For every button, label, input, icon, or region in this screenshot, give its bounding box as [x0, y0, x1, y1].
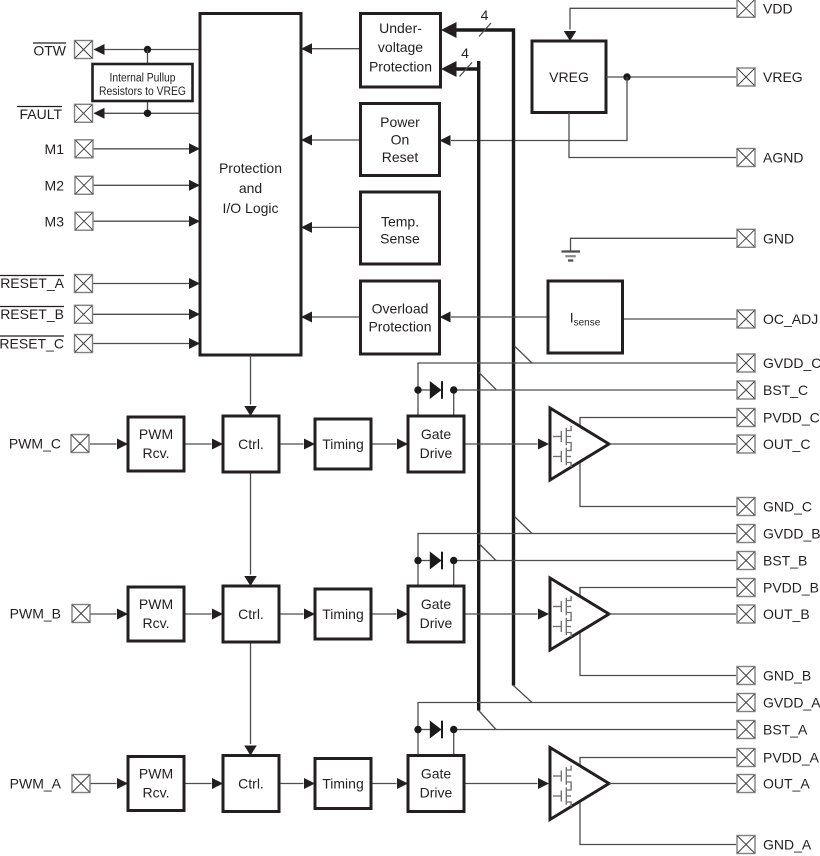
junction FAULT pullup node [144, 110, 151, 117]
wire RESET_A to Protection box [93, 283, 189, 285]
svg-text:Drive: Drive [420, 615, 453, 631]
arrow M2 into Protection box [189, 180, 200, 191]
pin FAULT [75, 104, 93, 122]
wire Gate Drive to power stage B [464, 613, 538, 615]
svg-text:Protection: Protection [219, 160, 282, 176]
label pin RESET_C [0, 336, 64, 352]
pin GND_A [737, 836, 755, 854]
pin PWM_C [71, 435, 89, 453]
junction OTW pullup node [144, 46, 151, 53]
arrow Overload into Protection [301, 312, 312, 323]
svg-text:AGND: AGND [763, 150, 803, 166]
wire Ctrl to Timing B [279, 613, 304, 615]
arrow into Ctrl C [212, 439, 223, 450]
svg-text:Under-: Under- [379, 20, 422, 36]
block Ctrl. C [223, 416, 279, 472]
wire OUT_A net [609, 783, 736, 785]
arrow POR into Protection [301, 135, 312, 146]
bus entry GVDD_C [515, 346, 533, 363]
wire BST_C net [454, 390, 736, 416]
arrow bus GVDD into UVP [441, 22, 457, 38]
wire GVDD_B net [418, 534, 736, 587]
arrow into VREG top [564, 31, 577, 41]
arrow into PWM Rcv B [117, 609, 128, 620]
pin PVDD_B [737, 579, 755, 597]
wire UVP to Protection [312, 48, 361, 50]
svg-text:Reset: Reset [382, 149, 419, 165]
svg-text:Power: Power [380, 114, 420, 130]
arrow RESET_C into Protection box [189, 338, 200, 349]
block Protection and I/O Logic [200, 14, 301, 356]
wire pullup vertical [147, 50, 149, 114]
pin GVDD_C [737, 354, 755, 372]
arrow into PWM Rcv A [117, 778, 128, 789]
svg-text:PVDD_B: PVDD_B [763, 580, 819, 596]
svg-text:Rcv.: Rcv. [143, 785, 170, 801]
wire Overload to Protection [312, 316, 361, 318]
pin OTW [75, 41, 93, 59]
svg-text:Temp.: Temp. [381, 214, 419, 230]
wire TempSense to Protection [312, 226, 361, 228]
wire Ctrl C to Ctrl B [250, 472, 252, 575]
pin OUT_A [737, 775, 755, 793]
arrow into Power On Reset right [440, 135, 451, 146]
ground symbol [562, 252, 581, 261]
svg-text:Internal Pullup: Internal Pullup [110, 73, 176, 85]
block PWM Rcv. A [128, 757, 184, 811]
svg-text:BST_A: BST_A [763, 722, 808, 738]
svg-text:GND_B: GND_B [763, 668, 811, 684]
mosfet low-side A [553, 786, 571, 807]
pin M2 [75, 176, 93, 194]
arrow into Gate Drive B [397, 609, 408, 620]
arrow into power stage B [538, 609, 549, 620]
svg-text:BST_B: BST_B [763, 553, 807, 569]
wire Ctrl to Timing A [279, 783, 304, 785]
svg-text:GND_A: GND_A [763, 837, 812, 853]
wire PWM Rcv to Ctrl C [184, 443, 212, 445]
block Gate Drive C [408, 416, 464, 472]
arrow OTW into pin [94, 44, 105, 55]
svg-text:GND: GND [763, 230, 794, 246]
svg-text:M2: M2 [45, 178, 65, 194]
pin VREG [737, 68, 755, 86]
wire BST_A net [454, 730, 736, 756]
label pin RESET_A [0, 275, 65, 291]
pin BST_C [737, 381, 755, 399]
block Power On Reset [361, 104, 440, 176]
arrow into Timing B [304, 609, 315, 620]
svg-text:Ctrl.: Ctrl. [238, 776, 264, 792]
wire M2 to Protection box [93, 184, 189, 186]
arrow M3 into Protection box [189, 216, 200, 227]
junction GVDD diode anode C [414, 386, 421, 393]
block Temp. Sense [361, 192, 440, 264]
svg-text:and: and [239, 180, 262, 196]
svg-text:PVDD_A: PVDD_A [763, 750, 820, 766]
wire Timing to Gate Drive A [371, 783, 397, 785]
power stage triangle B [550, 578, 609, 650]
svg-text:On: On [391, 132, 410, 148]
wire OC_ADJ to Isense [623, 318, 737, 320]
block PWM Rcv. C [128, 417, 184, 471]
arrow into PWM Rcv C [117, 439, 128, 450]
block Ctrl. B [223, 586, 279, 642]
wire PVDD_B net [580, 588, 736, 676]
junction BST diode cathode B [450, 557, 457, 564]
svg-text:VREG: VREG [549, 69, 589, 85]
bus entry GVDD_B [515, 517, 533, 534]
svg-text:VDD: VDD [763, 0, 793, 16]
arrow UVP into Protection [301, 43, 312, 54]
block Under-voltage Protection [361, 14, 441, 88]
svg-text:PWM: PWM [139, 766, 173, 782]
pin RESET_B [75, 305, 93, 323]
svg-text:OUT_A: OUT_A [763, 776, 810, 792]
pin RESET_C [75, 335, 93, 353]
bus entry BST_A [479, 711, 496, 730]
power stage triangle C [550, 408, 609, 480]
pin GND_C [737, 498, 755, 516]
svg-text:Drive: Drive [420, 785, 453, 801]
pin GND_B [737, 667, 755, 685]
wire RESET_C to Protection box [93, 343, 189, 345]
wire Gate Drive to power stage C [464, 443, 538, 445]
arrow RESET_B into Protection box [189, 309, 200, 320]
wire GVDD_C net [418, 363, 736, 416]
wire POR to Protection [312, 139, 361, 141]
mosfet high-side C [553, 426, 571, 447]
block Isense [548, 281, 623, 353]
arrow into Ctrl A [212, 778, 223, 789]
svg-text:OTW: OTW [33, 43, 66, 59]
wire PWM Rcv to Ctrl A [184, 783, 212, 785]
bus entry GVDD_A [514, 686, 533, 703]
arrow into Gate Drive A [397, 778, 408, 789]
bus BST vertical top stub [477, 61, 480, 69]
arrow into Timing C [304, 439, 315, 450]
svg-text:RESET_C: RESET_C [0, 336, 64, 352]
arrow into Timing A [304, 778, 315, 789]
svg-text:Ctrl.: Ctrl. [238, 606, 264, 622]
block Gate Drive A [408, 756, 464, 812]
arrow into Gate Drive C [397, 439, 408, 450]
svg-text:OC_ADJ: OC_ADJ [763, 311, 818, 327]
wire OUT_C net [609, 443, 736, 445]
wire Protection to Ctrl C [250, 355, 252, 405]
wire Timing to Gate Drive B [371, 613, 397, 615]
svg-text:Resistors to VREG: Resistors to VREG [99, 86, 186, 98]
wire M1 to Protection box [93, 148, 189, 150]
pin VDD [737, 0, 755, 17]
junction GVDD diode anode B [414, 557, 421, 564]
svg-text:GND_C: GND_C [763, 499, 812, 515]
wire Isense to Overload [451, 316, 548, 318]
mosfet low-side B [553, 616, 571, 637]
block Ctrl. A [223, 756, 279, 812]
svg-text:Ctrl.: Ctrl. [238, 436, 264, 452]
bus BST (4) horizontal into UVP [452, 69, 479, 711]
wire Ctrl to Timing C [279, 443, 304, 445]
svg-text:PVDD_C: PVDD_C [763, 410, 820, 426]
arrow FAULT into pin [94, 108, 105, 119]
wire Ctrl B to Ctrl A [250, 642, 252, 744]
svg-text:GVDD_C: GVDD_C [763, 355, 820, 371]
svg-text:PWM: PWM [139, 426, 173, 442]
svg-text:Timing: Timing [322, 776, 364, 792]
wire Timing to Gate Drive C [371, 443, 397, 445]
bus slash BST 4 [460, 63, 473, 77]
svg-text:FAULT: FAULT [19, 106, 62, 122]
arrow into Ctrl B [212, 609, 223, 620]
svg-text:VREG: VREG [763, 69, 803, 85]
svg-text:PWM_A: PWM_A [10, 776, 62, 792]
wire VREG output to VREG pin [606, 76, 736, 78]
block Gate Drive B [408, 586, 464, 642]
pin OC_ADJ [737, 310, 755, 328]
arrow into Ctrl A top [244, 746, 257, 756]
svg-text:GVDD_B: GVDD_B [763, 526, 820, 542]
arrow into power stage A [538, 778, 549, 789]
block PWM Rcv. B [128, 587, 184, 641]
wire PWM_A pin to PWM Rcv [90, 783, 117, 785]
pin OUT_B [737, 605, 755, 623]
svg-text:PWM_B: PWM_B [10, 606, 61, 622]
pin PVDD_C [737, 409, 755, 427]
pin PVDD_A [737, 749, 755, 767]
arrow into power stage C [538, 439, 549, 450]
junction BST diode cathode A [450, 726, 457, 733]
pin GVDD_B [737, 525, 755, 543]
mosfet low-side C [553, 446, 571, 467]
svg-text:Sense: Sense [380, 231, 420, 247]
pin GND [737, 229, 755, 247]
svg-text:OUT_C: OUT_C [763, 436, 810, 452]
svg-text:Rcv.: Rcv. [143, 445, 170, 461]
svg-text:M3: M3 [45, 214, 65, 230]
svg-text:I/O Logic: I/O Logic [222, 200, 278, 216]
label pin FAULT [17, 106, 62, 122]
wire GND pin to ground symbol [571, 238, 737, 251]
label pin OTW [33, 43, 67, 59]
wire VDD to VREG [570, 8, 736, 29]
wire PVDD_A net [580, 758, 736, 845]
wire Gate Drive to power stage A [464, 783, 538, 785]
svg-text:Drive: Drive [420, 445, 453, 461]
pin OUT_C [737, 435, 755, 453]
wire PWM_C pin to PWM Rcv [90, 443, 117, 445]
wire PWM_B pin to PWM Rcv [90, 613, 117, 615]
svg-text:4: 4 [481, 7, 489, 23]
wire OTW from Protection box [95, 49, 201, 51]
arrow into Ctrl C top [244, 406, 257, 416]
svg-text:BST_C: BST_C [763, 382, 808, 398]
wire VREG node to Power On Reset [451, 77, 627, 141]
svg-text:M1: M1 [45, 141, 65, 157]
bus entry BST_B [479, 544, 496, 561]
bus entry BST_C [479, 373, 496, 390]
arrow bus BST into UVP [441, 61, 457, 77]
pin M1 [75, 140, 93, 158]
wire M3 to Protection box [93, 220, 189, 222]
arrow Isense into Overload [440, 312, 451, 323]
block Overload Protection [361, 281, 440, 354]
arrow M1 into Protection box [189, 143, 200, 154]
arrow TempSense into Protection [301, 222, 312, 233]
diode bootstrap D-B [418, 552, 442, 570]
wire GVDD_A net [418, 703, 736, 756]
svg-text:RESET_A: RESET_A [0, 275, 64, 291]
wire PWM Rcv to Ctrl B [184, 613, 212, 615]
svg-text:Gate: Gate [421, 766, 452, 782]
arrow RESET_A into Protection box [189, 278, 200, 289]
svg-text:PWM_C: PWM_C [9, 436, 61, 452]
pin AGND [737, 149, 755, 167]
bus GVDD (4) horizontal into UVP [452, 30, 514, 686]
svg-text:voltage: voltage [378, 39, 423, 55]
svg-text:RESET_B: RESET_B [0, 306, 64, 322]
svg-text:Timing: Timing [322, 436, 364, 452]
label pin RESET_B [0, 306, 64, 322]
junction VREG output node [623, 73, 630, 80]
mosfet high-side B [553, 596, 571, 617]
wire PVDD_C net [580, 418, 736, 507]
mosfet high-side A [553, 766, 571, 787]
block Internal Pullup Resistors to VREG [93, 64, 193, 101]
pin M3 [75, 212, 93, 230]
svg-text:Rcv.: Rcv. [143, 615, 170, 631]
pin RESET_A [75, 275, 93, 293]
block VREG regulator U-VREG [532, 41, 606, 113]
wire OUT_B net [609, 613, 736, 615]
power stage triangle A [550, 748, 609, 820]
junction BST diode cathode C [450, 386, 457, 393]
pin BST_A [737, 721, 755, 739]
bus slash GVDD 4 [479, 23, 491, 37]
wire RESET_B to Protection box [93, 313, 189, 315]
svg-text:Gate: Gate [421, 596, 452, 612]
wire FAULT from Protection box [95, 112, 201, 114]
pin BST_B [737, 552, 755, 570]
svg-text:Overload: Overload [372, 301, 429, 317]
svg-text:Protection: Protection [369, 59, 432, 75]
block Timing B [315, 589, 371, 639]
svg-text:Protection: Protection [368, 319, 431, 335]
block Timing C [315, 419, 371, 469]
wire VREG bottom to AGND pin [569, 113, 736, 158]
diode bootstrap D-A [418, 721, 442, 739]
svg-text:PWM: PWM [139, 596, 173, 612]
wire BST_B net [454, 561, 736, 587]
junction GVDD diode anode A [414, 726, 421, 733]
pin PWM_B [72, 605, 90, 623]
arrow into Ctrl B top [244, 576, 257, 586]
svg-text:Gate: Gate [421, 426, 452, 442]
svg-text:Timing: Timing [322, 606, 364, 622]
pin PWM_A [72, 775, 90, 793]
pin GVDD_A [737, 694, 755, 712]
block Timing A [315, 759, 371, 809]
diode bootstrap D-C [418, 381, 442, 399]
svg-text:OUT_B: OUT_B [763, 606, 810, 622]
svg-text:GVDD_A: GVDD_A [763, 695, 820, 711]
svg-text:4: 4 [461, 45, 469, 61]
